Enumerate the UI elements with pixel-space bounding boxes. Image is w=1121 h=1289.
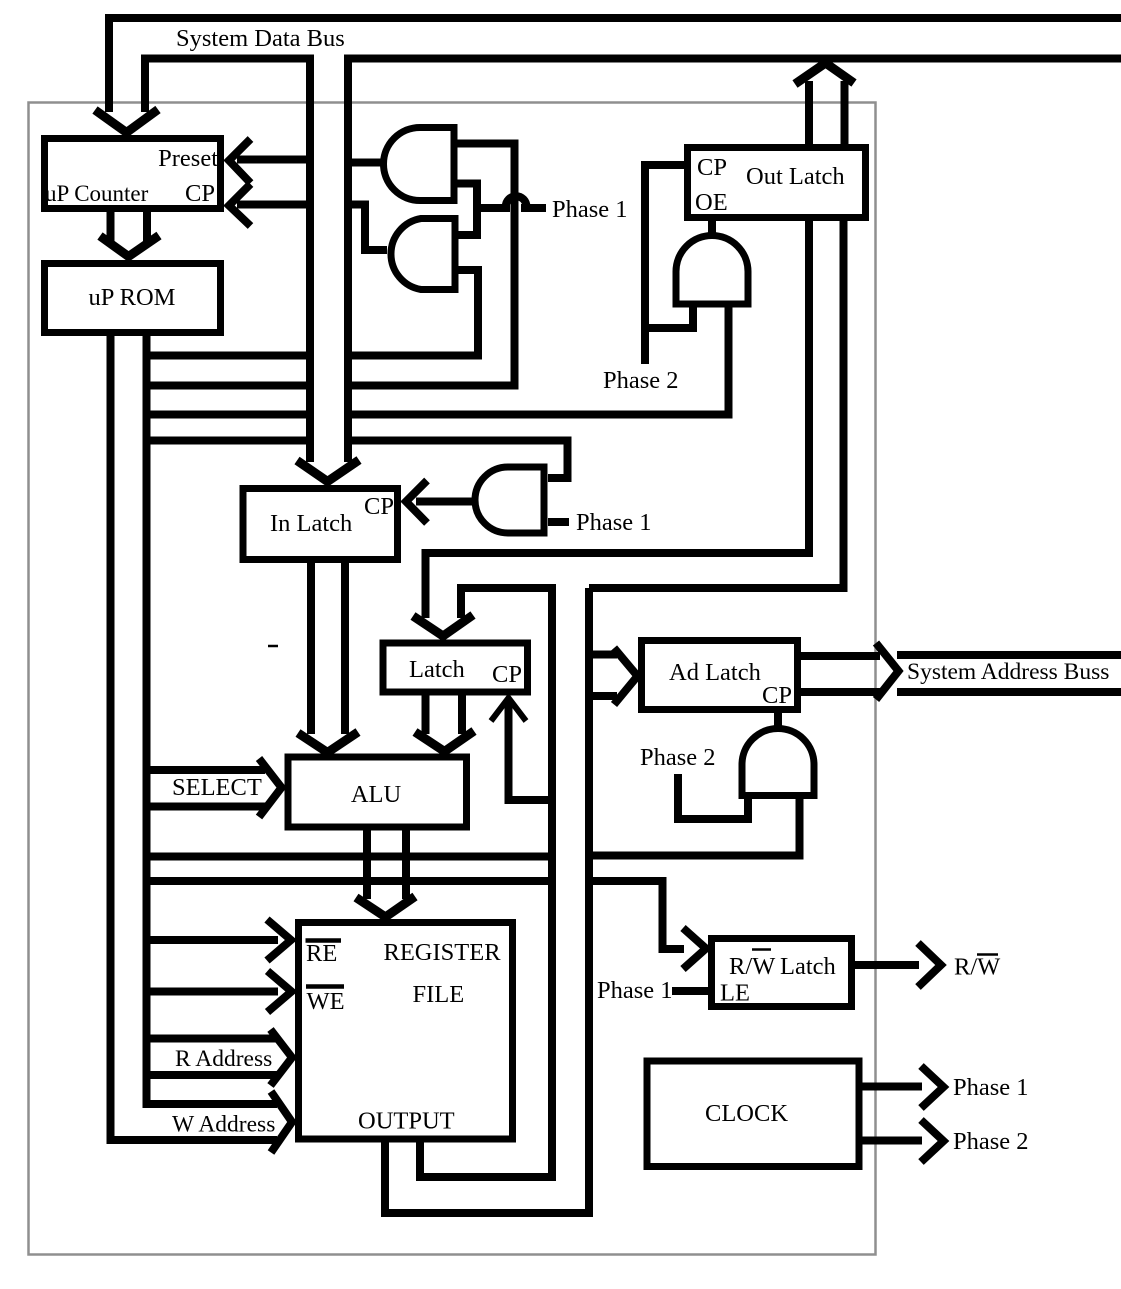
- svg-text:Preset: Preset: [158, 145, 218, 172]
- svg-text:Phase 2: Phase 2: [603, 367, 679, 394]
- arrowhead: CP input: [229, 184, 251, 226]
- wire: rail V1 from uP ROM to W Address lower line: [111, 336, 278, 1140]
- bus: System Data Bus second line left segment with drops to uP Counter and In Latch (left): [145, 59, 310, 463]
- wire: R Address lines (double): [147, 1039, 279, 1076]
- svg-text:ALU: ALU: [351, 781, 402, 808]
- wire: G4 left input (Phase 2): [678, 774, 748, 819]
- wire: SELECT lines from rail V2: [147, 770, 266, 807]
- overline: WE: [306, 984, 344, 989]
- bus: System Address Buss upper line: [897, 651, 1121, 659]
- wire: G4 output to Ad Latch CP: [774, 713, 782, 731]
- wire: G5 output to OE: [708, 221, 716, 238]
- svg-text:CP: CP: [492, 661, 522, 688]
- block: Latch: [383, 643, 528, 692]
- svg-text:R/W: R/W: [729, 953, 776, 980]
- svg-text:uP Counter: uP Counter: [45, 181, 149, 206]
- bus: System Data Bus second line right segment with drop to In Latch (right): [348, 59, 1121, 463]
- svg-text:Phase 1: Phase 1: [953, 1074, 1029, 1101]
- wire: ALU output down to REGISTER FILE (double line): [367, 830, 406, 899]
- wire: H1 right segment to AND gate G2 lower input: [352, 270, 478, 356]
- and-gate G2 (lower left, points left): [391, 219, 455, 290]
- and-gate G4 (Ad Latch CP gate, points up): [742, 729, 814, 796]
- wire: WE line: [147, 988, 279, 996]
- svg-text:Phase 1: Phase 1: [597, 977, 673, 1004]
- svg-text:R/W: R/W: [954, 954, 1001, 981]
- svg-text:In Latch: In Latch: [270, 510, 352, 537]
- wire: line y588A from Latch arrow right, down to REGISTER FILE OUTPUT (U): [420, 588, 552, 1177]
- svg-text:OUTPUT: OUTPUT: [358, 1108, 455, 1135]
- wire: Phase 1 into LE: [672, 987, 710, 995]
- block: uP Counter: [45, 139, 221, 209]
- svg-text:R Address: R Address: [175, 1046, 272, 1072]
- wire: R/W output: [855, 961, 919, 969]
- arrowhead: into Latch: [413, 615, 473, 636]
- wire: rail V2 from uP ROM to W Address upper line: [147, 336, 278, 1104]
- block: R/W Latch: [712, 939, 852, 1007]
- wire: uP Counter to uP ROM (double line): [111, 212, 148, 241]
- svg-text:FILE: FILE: [413, 981, 465, 1008]
- wire: line y553 from Latch arrow up-right to Out Latch left output: [426, 221, 810, 618]
- svg-text:uP ROM: uP ROM: [89, 284, 176, 311]
- bus: System Data Bus top line with left drop to uP Counter: [109, 18, 1121, 112]
- arrowhead: to System Address Buss: [876, 643, 899, 700]
- wire: H3 right segment to AND gate G5 right input: [352, 304, 729, 415]
- block: REGISTER FILE: [299, 923, 513, 1140]
- svg-text:W Address: W Address: [172, 1112, 275, 1138]
- wire: Latch outputs down to ALU (double line): [426, 694, 463, 734]
- wire: ROM output H4 left segment: [147, 437, 311, 445]
- overline: W in R/W Latch label: [752, 948, 771, 951]
- wire: G3 output to In Latch CP: [416, 498, 477, 506]
- svg-text:Latch: Latch: [409, 656, 465, 683]
- arrowhead: into REGISTER FILE: [356, 897, 415, 918]
- svg-text:Ad Latch: Ad Latch: [669, 659, 761, 686]
- svg-text:Latch: Latch: [780, 953, 836, 980]
- arrowhead: into In Latch CP: [406, 481, 427, 524]
- arrow: Out Latch to data bus (double line up): [809, 81, 845, 144]
- arrowhead: up into Latch CP: [491, 698, 526, 721]
- svg-text:CP: CP: [364, 493, 394, 520]
- wire: Latch CP feed from vertical: [509, 703, 553, 800]
- svg-text:Phase 1: Phase 1: [576, 509, 652, 536]
- wire: ROM output H2 left segment: [147, 382, 311, 390]
- and-gate G1 (upper left, points left): [384, 128, 455, 201]
- svg-text:REGISTER: REGISTER: [384, 939, 502, 966]
- frame: CPU boundary box (gray): [29, 103, 876, 1255]
- block: CLOCK: [647, 1061, 859, 1167]
- arrowhead: W Address: [271, 1092, 292, 1153]
- svg-text:System Data Bus: System Data Bus: [176, 25, 345, 52]
- block: Ad Latch: [642, 641, 798, 710]
- arrowhead: RE: [267, 920, 291, 961]
- wire: Preset input from data bus: [237, 156, 310, 164]
- wire: CP input to uP Counter: [237, 201, 310, 209]
- arrowhead: R Address: [271, 1030, 293, 1086]
- wire: Y880 left segment: [147, 877, 549, 885]
- wire: ROM output H1 left segment: [147, 352, 311, 360]
- wire: vertical x589 down to REGISTER FILE OUTPUT (second U): [385, 588, 589, 1213]
- svg-text:CP: CP: [762, 682, 792, 709]
- wire: G5 left input from Phase 2 rail: [645, 304, 693, 328]
- wire: G2 output to data bus (Z path): [348, 205, 387, 251]
- wire: Phase 1 hop over vertical: [506, 196, 527, 206]
- overline: RE: [306, 938, 342, 943]
- svg-text:SELECT: SELECT: [172, 774, 262, 801]
- wire: H2 right segment to AND gate G1 upper input: [352, 144, 515, 386]
- block: Out Latch: [688, 148, 866, 218]
- wire: line y588B to Out Latch right output: [589, 221, 844, 588]
- block: In Latch: [243, 489, 398, 560]
- arrowhead: SELECT into ALU: [259, 759, 282, 818]
- wire: Y855 right segment to G4 right input: [593, 792, 800, 856]
- wire: into Ad Latch (double line tees): [589, 655, 617, 697]
- wire: Ad Latch outputs (double line): [801, 656, 880, 692]
- svg-text:System Address Buss: System Address Buss: [907, 659, 1109, 685]
- svg-text:Phase 1: Phase 1: [552, 196, 628, 223]
- wire: Phase 2 rail to Out Latch CP: [645, 165, 684, 364]
- arrowhead: Phase 1 out: [921, 1066, 944, 1108]
- svg-text:Out Latch: Out Latch: [746, 163, 845, 190]
- wire: In Latch outputs down to ALU (double line): [311, 563, 345, 734]
- arrowhead: R/W output: [918, 943, 941, 987]
- arrowhead: Phase 2 out: [921, 1120, 944, 1162]
- svg-text:CLOCK: CLOCK: [705, 1100, 788, 1127]
- arrowhead: data bus into In Latch: [297, 460, 359, 482]
- arrowhead: data bus into uP Counter: [95, 110, 158, 133]
- block: ALU: [288, 757, 467, 827]
- svg-text:OE: OE: [695, 189, 728, 216]
- svg-text:CP: CP: [697, 154, 727, 181]
- svg-text:LE: LE: [720, 980, 750, 1007]
- svg-text:Phase 2: Phase 2: [640, 744, 716, 771]
- overline: W in R/W out label: [977, 953, 998, 956]
- svg-text:Phase 2: Phase 2: [953, 1128, 1029, 1155]
- wire: Y880 right segment to R/W Latch arrow: [593, 881, 684, 949]
- arrowhead: into Ad Latch: [614, 648, 638, 705]
- arrowhead: into R/W Latch: [683, 928, 706, 969]
- wire: G3 lower input Phase 1 stub: [548, 518, 569, 526]
- arrowhead: WE: [268, 971, 292, 1012]
- wire: Phase 1 clock output: [861, 1083, 922, 1091]
- wire: G1 lower input / G2 upper input vertical (Phase 1 node): [454, 184, 477, 236]
- wire: ROM output H3 left segment: [147, 411, 311, 419]
- svg-text:RE: RE: [306, 940, 337, 967]
- wire: G1 output to data bus: [348, 159, 387, 167]
- arrowhead: Preset input: [229, 139, 251, 183]
- bus: System Address Buss lower line: [897, 688, 1121, 696]
- and-gate G3 (In Latch CP gate, points left): [475, 467, 544, 533]
- wire: RE line: [147, 936, 279, 944]
- wire: Y855 left segment: [147, 853, 549, 861]
- artifact: small dash: [268, 645, 278, 648]
- wire: H4 right segment to AND gate G3 upper input: [352, 441, 568, 479]
- arrowhead: into uP ROM: [100, 236, 159, 257]
- svg-text:CP: CP: [185, 180, 215, 207]
- wire: Phase 1 stub right part: [521, 204, 546, 212]
- block: uP ROM: [45, 264, 221, 333]
- wire: Phase 2 clock output: [861, 1137, 922, 1145]
- svg-text:WE: WE: [307, 988, 345, 1015]
- and-gate G5 (OE gate, points up): [676, 236, 748, 305]
- arrowhead: into ALU left: [298, 732, 358, 753]
- arrowhead: into ALU right: [415, 731, 474, 752]
- wire: Phase 1 stub left part: [477, 204, 510, 212]
- arrowhead: up into data bus: [795, 63, 854, 84]
